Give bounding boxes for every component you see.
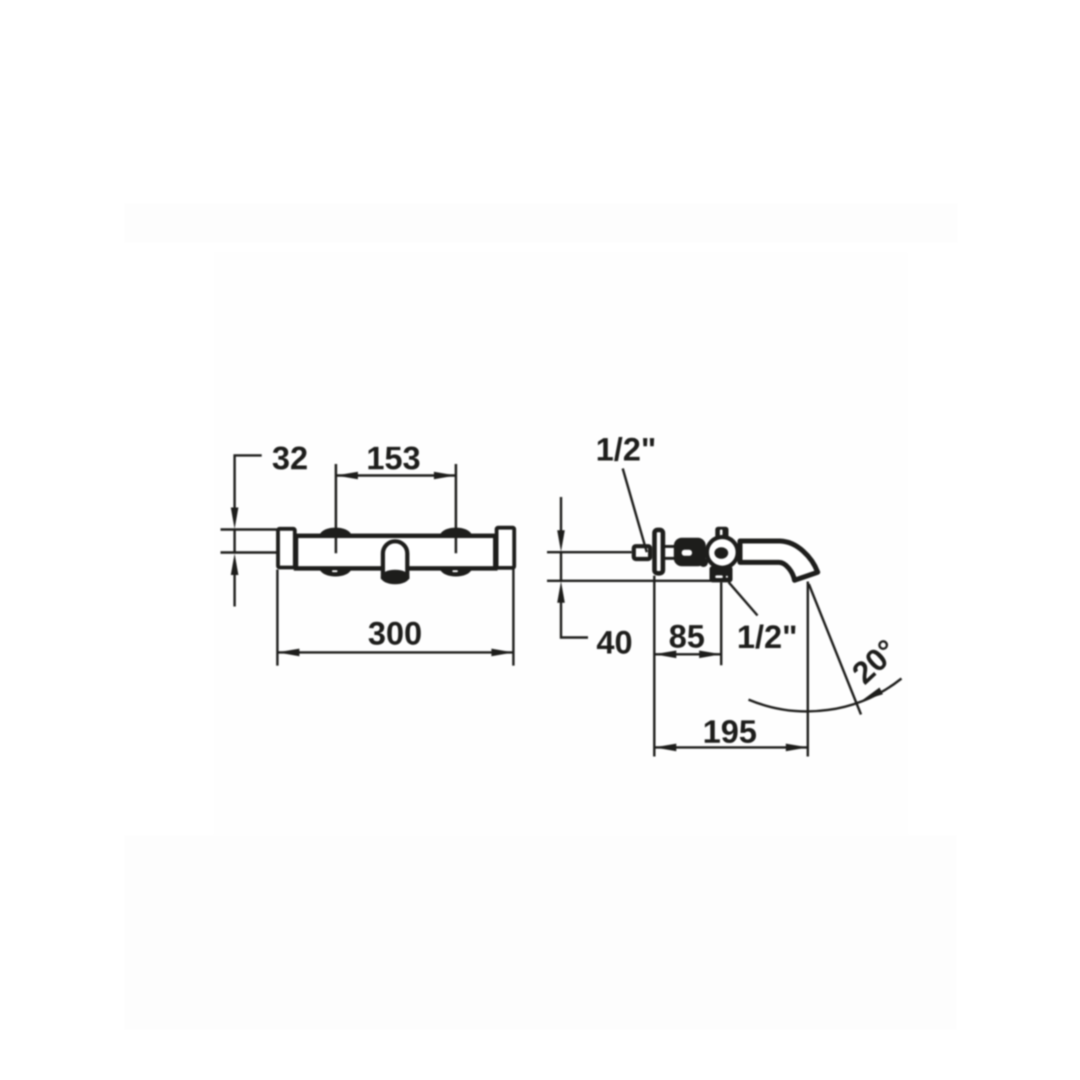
front view: left bottom mounting bump: [319, 568, 352, 576]
front view: central spout dome: [383, 541, 407, 577]
arrowhead 153 left: [336, 472, 358, 480]
dim connector 40: [560, 552, 562, 581]
leader line top 1/2 inch: [623, 469, 647, 553]
arrowhead 300 right: [491, 649, 513, 657]
reference line top of bar: [221, 528, 277, 530]
dimension text 85: [670, 625, 704, 648]
reference line bar centerline: [221, 551, 277, 553]
dimension line 85: [654, 653, 721, 655]
front view: white dash right bottom bump: [452, 570, 458, 572]
front view: spout outlet ellipse: [381, 570, 410, 585]
front view: left end cap: [278, 529, 295, 568]
front view: right top mounting bump: [439, 528, 472, 536]
side view: handle ring: [707, 537, 738, 568]
front view: bar body: [296, 536, 495, 569]
dimension text 40: [597, 631, 631, 654]
dimension text 300: [369, 622, 421, 645]
dimension text 153: [368, 447, 419, 470]
arrowhead 300 left: [277, 649, 299, 657]
arrowhead 195 left: [654, 744, 676, 752]
dimension line 300: [277, 651, 513, 653]
side view: valve body: [674, 538, 706, 566]
leader elbow for 32: [235, 455, 262, 514]
faint drawing panel: [214, 252, 908, 834]
extension line 153 left: [335, 464, 338, 553]
dimension line 195: [654, 746, 808, 748]
label text top 1/2 inch: [598, 437, 654, 461]
front view: right end cap: [497, 528, 515, 568]
front view: white dash left bottom bump: [332, 570, 338, 572]
arrowhead 195 right: [786, 744, 808, 752]
side view: handle center dot: [714, 547, 728, 559]
side view: union nut connector: [663, 545, 677, 560]
arrowhead 40 down: [557, 530, 565, 552]
side view: knob white slit: [720, 530, 723, 537]
arrowhead on angle arc: [862, 688, 883, 701]
faint top band: [124, 203, 958, 243]
side view: union nut white band: [663, 548, 677, 557]
side view: spout tube: [740, 541, 818, 580]
arrowhead 40 up: [557, 581, 565, 603]
angle arc 20 degrees: [749, 679, 902, 712]
side view: handle top knob: [715, 527, 728, 538]
front view: left top mounting bump: [319, 528, 352, 536]
front view: right bottom mounting bump: [439, 568, 472, 576]
dimension text 195: [705, 720, 756, 743]
side view: valve white dash: [682, 550, 692, 556]
leader line bottom 1/2 inch: [729, 582, 758, 615]
shaft above 40 down arrow: [560, 497, 562, 536]
extension line 85/195 left: [653, 576, 655, 757]
arrowhead 32 down: [231, 508, 239, 530]
label text bottom 1/2 inch: [739, 624, 795, 648]
side view: valve lower bump: [699, 558, 708, 567]
shaft and elbow below 40 up arrow: [561, 598, 588, 638]
dimension line 153: [336, 474, 456, 476]
arrowhead 85 left: [654, 651, 676, 659]
angle text 20 degrees: [853, 640, 888, 685]
vertical reference line from spout tip: [807, 582, 809, 757]
side view: outlet block white dot: [726, 576, 728, 578]
faint bottom panel: [124, 835, 957, 1030]
side view: inlet centerline: [547, 551, 632, 553]
side view: inlet stub: [634, 546, 650, 559]
side view: outlet block white dash: [715, 575, 723, 578]
side view: outlet block below handle: [710, 566, 733, 582]
extension line 300 right: [512, 568, 514, 666]
slanted 20 degree line: [809, 584, 861, 715]
side view: wall flange: [655, 530, 663, 573]
extension line 153 right: [455, 464, 458, 553]
extension line 85 right: [720, 582, 722, 665]
arrowhead 85 right: [699, 651, 721, 659]
arrowhead 32 up: [231, 554, 239, 576]
shaft below 32 up arrow: [233, 570, 235, 607]
side view: spout centerline: [547, 580, 712, 582]
dim connector 32: [233, 530, 235, 554]
dimension text 32: [273, 447, 307, 470]
arrowhead 153 right: [434, 472, 456, 480]
extension line 300 left: [276, 570, 278, 666]
